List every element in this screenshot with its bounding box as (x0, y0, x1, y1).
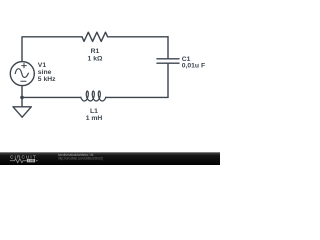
logo plus mark (36, 160, 38, 162)
svg-text:R1: R1 (91, 48, 100, 55)
svg-text:L1: L1 (90, 108, 98, 115)
inductor L1 (81, 91, 106, 101)
wire right vertical upper (167, 37, 169, 59)
ground symbol (13, 107, 31, 117)
resistor R1 (82, 32, 108, 41)
wire source top lead (21, 61, 23, 63)
wire right vertical lower (167, 63, 169, 97)
svg-text:http://circuitlab.com/c8t9ecr5: http://circuitlab.com/c8t9ecr56r22j (58, 157, 103, 161)
svg-text:sine: sine (38, 69, 52, 76)
labels (38, 48, 205, 122)
voltage source V1 sine (15, 69, 28, 78)
capacitor C1 plate bottom (157, 62, 179, 64)
svg-text:V1: V1 (38, 62, 47, 69)
svg-text:1 kΩ: 1 kΩ (88, 55, 103, 62)
wire bottom-right (106, 96, 168, 98)
node junction dot (20, 96, 24, 100)
voltage source plus sign (22, 63, 27, 68)
logo LAB box (27, 159, 35, 162)
svg-text:5 kHz: 5 kHz (38, 76, 56, 83)
wire top-right (108, 36, 168, 38)
capacitor C1 plate top (157, 58, 179, 60)
logo wire zigzag (10, 159, 27, 163)
wire source bottom to ground (21, 86, 23, 107)
wire bottom-left (22, 96, 81, 98)
voltage source V1 circle (10, 62, 34, 86)
svg-text:0,01u F: 0,01u F (182, 62, 205, 69)
svg-text:LAB: LAB (28, 159, 34, 163)
voltage source minus sign (21, 80, 26, 82)
svg-text:1 mH: 1 mH (86, 115, 103, 122)
wire top-left vertical (22, 37, 82, 62)
